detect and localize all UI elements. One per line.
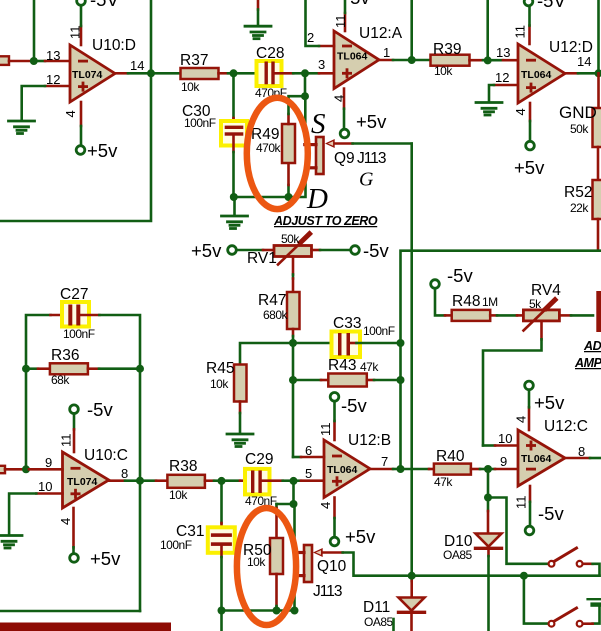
svg-text:GND: GND: [559, 103, 597, 122]
resistor R47: [287, 292, 300, 329]
wire: R52 bottom stub: [597, 219, 600, 250]
wire: ground rail to R49 bottom: [234, 196, 289, 199]
svg-text:OA85: OA85: [443, 548, 473, 562]
svg-text:R47: R47: [258, 292, 286, 309]
svg-text:-5v: -5v: [538, 503, 564, 524]
pin 11 of U12:B to -5v: [333, 421, 336, 440]
svg-text:R45: R45: [206, 360, 234, 377]
wire: RV1 right to -5v: [312, 249, 321, 252]
wire: junction to U10:D pin 13: [37, 60, 45, 63]
node: R47/C33/R45 junction: [289, 339, 297, 347]
power terminal -5v (top of U10:D): [77, 0, 86, 5]
svg-text:4: 4: [513, 108, 528, 115]
wire: U10:C pin 10 to ground: [36, 492, 62, 495]
svg-text:U10:D: U10:D: [92, 37, 136, 54]
wire: D10 cathode down to bottom edge: [487, 550, 490, 556]
node: R37/C28/C30 junction: [230, 69, 238, 77]
svg-text:U12:C: U12:C: [544, 418, 588, 435]
node: output junction on feedback rail: [147, 69, 155, 77]
svg-text:AMPLIF: AMPLIF: [574, 356, 601, 370]
resistor stub at left edge (cut): [0, 56, 9, 65]
svg-text:9: 9: [500, 454, 507, 469]
svg-text:5: 5: [305, 466, 312, 481]
wire: R45 bottom to ground: [239, 402, 242, 414]
wire: left stub to junction: [9, 60, 30, 63]
op-amp U10:C: [63, 452, 109, 508]
svg-text:C28: C28: [256, 45, 284, 62]
svg-text:J113: J113: [357, 150, 386, 167]
wire: SW1 right terminal down to rail: [583, 562, 593, 565]
capacitor C28: [265, 62, 268, 85]
svg-text:R37: R37: [180, 52, 208, 69]
node: D10 top junction: [484, 494, 492, 502]
svg-text:+5v: +5v: [534, 392, 565, 413]
svg-text:ADJUST TO ZERO: ADJUST TO ZERO: [273, 214, 378, 228]
wire: R39 to U12:D pin 13 junction: [470, 59, 484, 62]
wire: junction to U12:B pin 5: [294, 479, 302, 482]
power terminal -5v (U12:C pin11): [525, 526, 534, 535]
wire: bottom-left rail to left edge: [0, 610, 140, 613]
svg-text:R39: R39: [433, 41, 461, 58]
ground (top centre) with stub: [257, 0, 260, 10]
resistor R48 1M: [452, 310, 491, 321]
highlight box around C28: [257, 61, 282, 86]
op-amp U10:D: [70, 45, 115, 102]
ground (under U10:C pin 10): [0, 536, 22, 549]
svg-text:+5v: +5v: [191, 240, 222, 261]
svg-text:-5v: -5v: [447, 265, 473, 286]
node: R50 top junction: [290, 500, 298, 508]
node: R36 right junction: [136, 365, 144, 373]
wire: R43 left: [293, 379, 321, 382]
wire: SW2 right terminal: [583, 622, 593, 625]
svg-text:11: 11: [318, 423, 333, 437]
svg-text:11: 11: [514, 496, 529, 510]
power terminal -5v (RV1 right): [351, 246, 360, 255]
component stub at right edge: [596, 291, 601, 332]
wire: U12:C pin 10 from RV4 riser: [483, 444, 495, 447]
wire: Q10 source riser: [293, 504, 296, 551]
wire: R40 right to pin9 junction: [471, 468, 480, 471]
svg-text:R40: R40: [436, 448, 465, 465]
wire: C33 right to rail: [350, 342, 357, 345]
wire: rail A top corner to right edge: [401, 251, 601, 469]
svg-text:100nF: 100nF: [63, 327, 95, 341]
power terminal +5v (U12:A pin4): [340, 129, 349, 138]
transistor Q10 (J113 JFET): [295, 545, 323, 582]
node: R43 left junction: [289, 376, 297, 384]
resistor R49: [287, 185, 290, 197]
wire: U10:D output pin 14: [115, 72, 128, 75]
wire: C30 branch down from junction: [232, 73, 235, 118]
node: rail end junction: [291, 607, 299, 615]
resistor R37: [181, 68, 219, 79]
wire: C29 right to pin5 junction: [262, 479, 283, 482]
wire: rail between R47 junction and pin6 corner: [292, 343, 295, 457]
pin 4 of U10:C to +5v: [72, 508, 75, 547]
wire: RV4 wiper down to U12:C pin10 riser: [540, 321, 543, 339]
power terminal +5v (U12:D pin4): [526, 141, 535, 150]
wire: R37 to junction: [219, 72, 229, 75]
power terminal -5v (R48): [431, 280, 440, 289]
svg-text:-5v: -5v: [87, 399, 113, 420]
svg-text:10k: 10k: [181, 80, 200, 94]
wire: C27 right pin to right rail: [80, 314, 99, 317]
svg-text:TL074: TL074: [67, 476, 98, 488]
svg-text:+5v: +5v: [87, 140, 118, 161]
svg-text:100nF: 100nF: [363, 324, 395, 338]
node: pin 3 junction: [301, 69, 309, 77]
wire: C30 bottom to ground junction: [232, 136, 235, 152]
node: C33 right junction: [397, 339, 405, 347]
wire: R36 right pin: [88, 367, 99, 370]
wire: junction to Q9 drain riser: [289, 169, 306, 197]
resistor R50: [270, 538, 283, 574]
svg-text:ADJUST: ADJUST: [583, 339, 601, 353]
node: pin13 junction: [484, 56, 492, 64]
resistor R52 (cut at right edge): [593, 180, 601, 219]
pin 4 of U10:D: [80, 102, 83, 126]
svg-text:10: 10: [498, 431, 512, 446]
wire: R47 bottom to junction: [292, 329, 295, 336]
svg-text:R38: R38: [169, 458, 197, 475]
battery (cut at right edge): [588, 598, 601, 600]
wire: U12:D pin 12 to ground: [494, 84, 518, 87]
wire: C27 left pin: [51, 314, 69, 317]
svg-text:22k: 22k: [570, 201, 589, 215]
node: U12:A output junction: [408, 56, 416, 64]
transistor Q9 (J113 JFET): [305, 137, 335, 174]
svg-text:12: 12: [46, 72, 60, 87]
wire: left stub to pin 9 junction: [5, 468, 23, 471]
svg-text:R48: R48: [452, 293, 480, 310]
svg-text:10: 10: [38, 479, 52, 494]
svg-text:+5v: +5v: [90, 548, 121, 569]
svg-text:-5V: -5V: [90, 0, 119, 10]
wire: U12:B pin 6 from rail: [293, 456, 301, 459]
wire: Q9 gate to right rail: [335, 142, 353, 145]
op-amp U12:D: [518, 44, 565, 103]
svg-text:11: 11: [59, 434, 74, 448]
wire: U12:A output pin 1: [379, 59, 393, 62]
node: output/R40 junction: [397, 465, 405, 473]
wire: pin5 junction down to R50/Q10 node: [292, 481, 295, 504]
wire: D11 cathode to bottom edge: [410, 614, 413, 631]
svg-text:Q9: Q9: [334, 150, 355, 167]
ground (under U12:D pin 12): [476, 103, 502, 116]
node: U10:D pin13 junction: [30, 57, 38, 65]
svg-text:6: 6: [305, 443, 312, 458]
svg-text:12: 12: [495, 70, 509, 85]
wire: junction right to switch 1: [488, 498, 548, 564]
power terminal -5v (U12:B pin11): [330, 393, 339, 402]
power terminal -5v (top of U10:C): [70, 405, 79, 414]
svg-text:14: 14: [577, 54, 591, 69]
wire: junction to U12:D pin 13: [488, 59, 503, 62]
component stub at left edge (pin 9 source): [0, 466, 5, 473]
node: pin 9 junction: [484, 465, 492, 473]
resistor GND 50k (cut at right edge): [593, 108, 601, 147]
capacitor C33: [338, 333, 342, 356]
wire: junction down to ground: [233, 197, 236, 215]
wire: R48 to RV4: [490, 314, 497, 317]
svg-text:C29: C29: [245, 451, 273, 468]
wire: pin3 junction down to S junction: [304, 73, 307, 96]
highlight ellipse around R49/Q9: [247, 98, 308, 209]
svg-text:-5v: -5v: [363, 240, 389, 261]
resistor R39: [431, 55, 470, 66]
svg-text:10k: 10k: [247, 555, 266, 569]
highlight box around C30: [221, 121, 247, 146]
wire: U12:A pin 2 up to top edge: [319, 45, 334, 48]
svg-text:R43: R43: [328, 357, 356, 374]
svg-text:OA85: OA85: [364, 615, 394, 629]
wire: vertical from top edge to output junction: [410, 0, 413, 60]
wire: U12:C output pin 8 to right edge: [565, 457, 590, 460]
highlight box around C27: [62, 302, 89, 327]
svg-text:13: 13: [496, 45, 510, 60]
wire: RV4 right to edge component: [559, 314, 571, 317]
capacitor C27: [68, 305, 72, 326]
pin 4 of U12:A to +5v: [343, 89, 346, 109]
svg-text:47k: 47k: [360, 360, 379, 374]
svg-text:50k: 50k: [570, 122, 589, 136]
resistor R43: [328, 374, 367, 387]
wire: down to GND 50k resistor: [597, 73, 600, 108]
capacitor C30: [225, 126, 244, 129]
svg-text:14: 14: [130, 58, 144, 73]
wire: vertical from top edge to pin13 junction: [486, 0, 489, 60]
svg-text:D: D: [306, 183, 328, 215]
svg-text:1M: 1M: [482, 295, 498, 309]
svg-text:R36: R36: [51, 347, 79, 364]
pin 11 of U12:A to top edge supply: [344, 13, 347, 31]
highlight box around C33: [332, 332, 361, 358]
node: pin 9 junction: [22, 465, 30, 473]
svg-text:13: 13: [46, 48, 60, 63]
wire: C31 branch down: [220, 481, 223, 523]
wire: right edge vertical to U12:D output: [597, 0, 600, 73]
pin 4 of U12:B to +5v: [333, 498, 336, 519]
svg-text:-5v: -5v: [341, 395, 367, 416]
svg-text:11: 11: [68, 26, 83, 40]
wire: C27 left rail: [26, 315, 51, 469]
node: R38/C29/C31 junction: [218, 477, 226, 485]
power terminal +5v (U12:C pin4): [525, 381, 534, 390]
highlight box around C29: [245, 469, 270, 495]
ground (under U10:D pin 12): [9, 121, 35, 134]
wire: R43 right to rail: [367, 379, 374, 382]
svg-text:R52: R52: [564, 184, 592, 201]
ground (under R45): [227, 434, 253, 447]
wire: +5v to RV1: [237, 249, 264, 252]
svg-text:TL064: TL064: [521, 69, 552, 81]
svg-text:U12:B: U12:B: [348, 432, 391, 449]
svg-text:-5V: -5V: [537, 0, 566, 11]
capacitor C31: [211, 533, 232, 537]
node: R50 bottom junction: [273, 607, 281, 615]
wire: Q10 drain riser: [293, 577, 296, 611]
highlight box around C31: [208, 527, 235, 553]
wire: junction to C28: [234, 72, 257, 75]
wire: C31 bottom through rail to bottom edge: [220, 546, 223, 557]
wire: R38 right to junction: [205, 479, 214, 482]
svg-text:TL074: TL074: [72, 69, 103, 81]
wire: S junction down to Q9 source: [304, 96, 307, 143]
svg-text:11: 11: [513, 25, 528, 39]
resistor R40: [434, 464, 471, 475]
wire: junction to U10:C pin 9: [29, 468, 63, 471]
potentiometer RV4 5k: [523, 300, 559, 331]
wire: RV1 wiper down to R47: [292, 257, 295, 275]
svg-text:680k: 680k: [263, 308, 289, 322]
svg-text:TL064: TL064: [521, 453, 552, 465]
svg-text:C33: C33: [333, 315, 361, 332]
diode D10 (OA85): [487, 498, 490, 512]
node: C30/ground junction: [230, 193, 238, 201]
svg-text:U12:A: U12:A: [359, 25, 403, 42]
svg-text:S: S: [311, 108, 326, 140]
wire: Q10 gate to bottom rail: [323, 551, 343, 554]
wire: junction to U12:A pin 3: [305, 72, 319, 75]
svg-text:TL064: TL064: [327, 464, 358, 476]
wire: top-left vertical rail to U10:D pin13 junction: [33, 0, 36, 61]
red bus bar at bottom left (cut): [0, 623, 171, 631]
wire: junction to U12:C pin 9: [488, 468, 495, 471]
power terminal +5v (U12:B pin4): [330, 537, 339, 546]
node: U12:B pin 5 junction: [290, 477, 298, 485]
wire: junction left to R50: [277, 503, 294, 506]
wire: junction to R39: [412, 59, 431, 62]
svg-text:TL064: TL064: [337, 51, 368, 63]
wire: output junction to R38: [140, 479, 156, 482]
wire: bottom rail Q: [222, 609, 295, 612]
svg-text:4: 4: [332, 95, 347, 102]
node: R36 left junction: [22, 365, 30, 373]
svg-text:Q10: Q10: [317, 558, 347, 575]
svg-text:RV1: RV1: [247, 250, 277, 267]
power terminal +5v (bottom of U10:D): [76, 146, 85, 155]
svg-text:3: 3: [318, 57, 325, 72]
svg-text:68k: 68k: [51, 373, 70, 387]
svg-text:4: 4: [514, 416, 529, 423]
svg-text:2: 2: [307, 30, 314, 45]
switch SW2: [549, 608, 583, 627]
svg-text:-5v: -5v: [344, 0, 370, 8]
svg-text:+5v: +5v: [356, 111, 387, 132]
svg-text:11: 11: [333, 15, 348, 29]
svg-text:47k: 47k: [434, 475, 453, 489]
pin 11 of U10:C: [73, 414, 76, 430]
svg-text:1: 1: [383, 45, 390, 60]
wire: R50 bottom to rail: [275, 574, 278, 606]
wire: GND50k to R52: [597, 147, 600, 180]
power terminal +5v (RV1 left): [228, 246, 237, 255]
svg-text:J113: J113: [313, 583, 342, 600]
svg-text:G: G: [359, 169, 374, 191]
svg-text:10k: 10k: [434, 64, 453, 78]
wire: U10:C output pin 8: [109, 479, 125, 482]
svg-text:D11: D11: [363, 599, 390, 616]
resistor R38: [167, 475, 205, 488]
wire: gate rail down to D11 junction: [410, 144, 413, 576]
svg-text:10k: 10k: [169, 488, 188, 502]
wire: U12:D output pin 14 to right edge: [565, 72, 578, 75]
wire: C28 to U12:A pin3 junction: [275, 72, 294, 75]
svg-text:4: 4: [58, 518, 73, 525]
wire: R49 top to S node: [287, 114, 290, 124]
wire: U12:B output pin 7: [370, 468, 393, 471]
resistor R36: [50, 363, 88, 374]
potentiometer RV1 50k: [274, 234, 312, 265]
pin 11 of U12:C to -5v: [529, 486, 532, 502]
op-amp U12:C: [518, 430, 565, 486]
wire: battery to switch 2: [593, 607, 600, 624]
svg-text:4: 4: [63, 110, 78, 117]
wire: R36 left pin: [26, 367, 38, 370]
svg-text:7: 7: [381, 454, 388, 469]
switch SW1: [549, 548, 583, 567]
svg-text:10k: 10k: [210, 377, 229, 391]
svg-text:+5v: +5v: [345, 526, 376, 547]
pin 11 of U10:D: [80, 26, 83, 45]
wire: junction to C29: [222, 479, 241, 482]
diode D11 (OA85): [410, 576, 413, 581]
node: switch 2 branch junction: [520, 572, 528, 580]
node: output junction on right rail: [136, 477, 144, 485]
wire: -5v down to R48: [435, 289, 445, 316]
wire: stray vertical at bottom edge: [392, 619, 395, 631]
node: R43 right junction: [397, 376, 405, 384]
wire: junction to C33: [293, 342, 334, 345]
wire: pin9 junction down to D10 node: [487, 469, 490, 498]
svg-text:100nF: 100nF: [184, 116, 216, 130]
svg-text:8: 8: [578, 444, 585, 459]
op-amp U12:A: [334, 31, 379, 89]
highlight ellipse around R50/Q10: [237, 508, 296, 625]
wire: junction left and down to R45: [240, 343, 293, 365]
pin 4 of U12:C to +5v: [528, 407, 531, 430]
wire: U10:D pin 12 to ground: [45, 85, 70, 88]
capacitor C29: [251, 470, 254, 493]
pin 4 of U12:D to +5v: [529, 103, 532, 121]
node: C31 bottom junction: [218, 607, 226, 615]
svg-text:8: 8: [121, 466, 128, 481]
wire: junction down to switch 2: [524, 576, 548, 624]
svg-text:U10:C: U10:C: [84, 447, 128, 464]
resistor R45: [234, 365, 247, 402]
svg-text:5k: 5k: [529, 297, 542, 311]
svg-text:470k: 470k: [256, 141, 282, 155]
wire: feedback rail from top edge down and left to edge: [0, 0, 151, 221]
wire: junction to R40: [401, 468, 430, 471]
node: right edge junction: [595, 69, 601, 77]
power terminal +5v (bottom of U10:C): [70, 554, 79, 563]
svg-text:9: 9: [45, 455, 52, 470]
power terminal -5v (top of U12:D): [524, 0, 533, 6]
ground (below C30/R49 rail): [222, 216, 248, 229]
wire: junction to R37: [151, 72, 181, 75]
svg-text:50k: 50k: [281, 232, 300, 246]
node: R49 bottom junction: [285, 193, 293, 201]
node: D11 top junction on gate rail: [408, 572, 416, 580]
pin 11 of U12:D: [528, 26, 531, 45]
svg-text:+5v: +5v: [514, 157, 545, 178]
op-amp U12:B: [324, 440, 370, 498]
svg-text:4: 4: [318, 502, 333, 509]
node: S junction: [301, 92, 309, 100]
svg-text:100nF: 100nF: [160, 538, 192, 552]
